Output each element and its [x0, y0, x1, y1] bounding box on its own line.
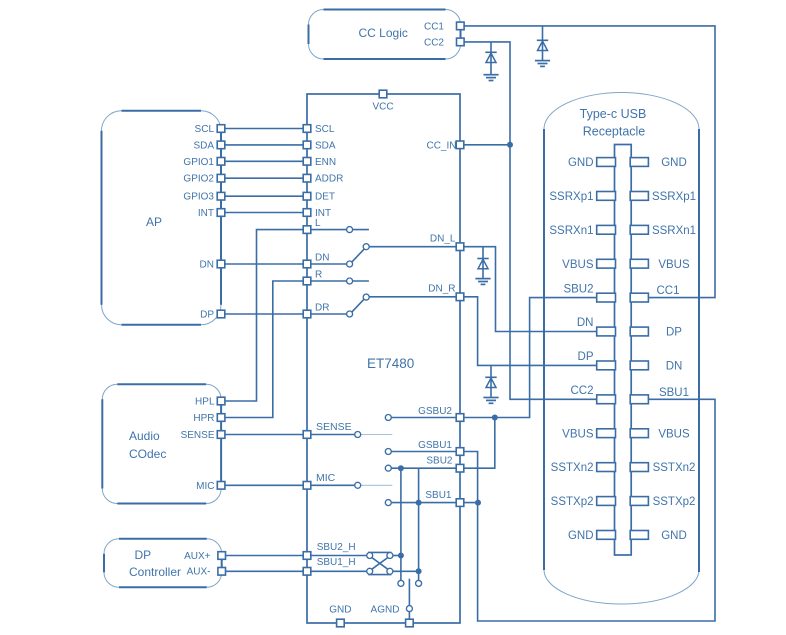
svg-text:SENSE: SENSE [181, 430, 215, 441]
pin ET7480 CC_IN [426, 140, 463, 151]
svg-text:DN: DN [315, 253, 329, 264]
svg-text:DN: DN [666, 361, 683, 373]
pin Audio COdec SENSE [181, 430, 225, 441]
switch contact SBU1 end [416, 580, 422, 586]
receptacle pad right SSTXn2 [630, 463, 648, 472]
svg-text:VCC: VCC [372, 102, 393, 113]
pin AP SCL [195, 124, 225, 135]
receptacle pad right SSRXn1 [630, 225, 648, 234]
switch contact GSBU1 [385, 449, 391, 455]
svg-text:SBU2_H: SBU2_H [317, 542, 356, 553]
wire AP GPIO3 to ET7480 [221, 195, 307, 197]
svg-text:Type-c USB: Type-c USB [580, 107, 647, 121]
svg-text:DN_L: DN_L [430, 234, 456, 245]
wire MIC codec to chip [221, 484, 307, 486]
block DP Controller [104, 539, 222, 588]
receptacle pad left SSTXn2 [597, 463, 616, 472]
svg-text:SBU1_H: SBU1_H [317, 557, 356, 568]
wire CC_IN to CC2 net [460, 144, 510, 146]
ESD diode D1 on CC2 net with ground [483, 42, 498, 81]
pin AP INT [198, 208, 225, 219]
pin ET7480 ADDR [303, 174, 343, 185]
pin ET7480 DN_R [428, 283, 464, 300]
receptacle pad right SSTXp2 [630, 497, 648, 506]
svg-text:GPIO1: GPIO1 [183, 157, 214, 168]
switch arm DN to DN_L [352, 249, 365, 262]
switch arm DR to DN_R [352, 299, 365, 312]
receptacle pad left VBUS [597, 259, 616, 268]
connector Type-c USB Receptacle outline [544, 92, 699, 604]
switch throw L open end [353, 229, 369, 231]
switch contact R [347, 278, 353, 284]
receptacle pad right DP [630, 327, 648, 336]
pin AP SDA [193, 140, 224, 151]
svg-text:R: R [315, 270, 322, 281]
svg-text:GSBU1: GSBU1 [418, 440, 452, 451]
pin ET7480 SBU1 [425, 490, 463, 506]
pin CC Logic CC2 [424, 38, 464, 49]
ESD diode D2 on CC1 net with ground [535, 26, 550, 67]
wire SBU1_H to crossbar [307, 570, 366, 572]
svg-text:SSRXn1: SSRXn1 [549, 225, 593, 237]
receptacle pad left DP [597, 361, 616, 370]
svg-text:GND: GND [568, 157, 594, 169]
svg-text:SSRXp1: SSRXp1 [549, 191, 593, 203]
wire SENSE codec to chip [221, 434, 307, 436]
svg-text:MIC: MIC [316, 472, 336, 484]
wire AP DP to ET7480 [221, 313, 307, 315]
pin ET7480 DET [303, 192, 335, 203]
receptacle pad left VBUS [597, 429, 616, 438]
block Audio COdec [102, 384, 221, 503]
svg-text:CC1: CC1 [656, 285, 679, 297]
ESD diode D4 on DN_R net with ground [483, 365, 498, 403]
junction CC_IN [507, 142, 513, 148]
receptacle pad left SBU2 [597, 293, 616, 302]
svg-text:Receptacle: Receptacle [583, 125, 646, 139]
open line SENSE throw [361, 434, 392, 436]
svg-text:SDA: SDA [193, 140, 214, 151]
wire AUX+ to SBU2_H [222, 555, 307, 557]
svg-text:SBU2: SBU2 [563, 283, 593, 295]
ESD diode D3 on DN_L net with ground [475, 247, 490, 285]
junction GSBU2/SBU2 [492, 415, 498, 421]
junction crossbar SBU2_H [398, 553, 404, 559]
wire crossbar to SBU1 branch [393, 570, 418, 572]
switch contact GSBU2 [385, 415, 391, 421]
svg-text:DN: DN [200, 260, 214, 271]
svg-text:DP: DP [666, 327, 682, 339]
switch pole DN [347, 261, 353, 267]
pin ET7480 AGND [371, 604, 414, 627]
pin ET7480 R [303, 270, 322, 285]
svg-text:CC2: CC2 [424, 38, 444, 49]
wire crossbar to SBU2 branch [393, 555, 401, 557]
wire AP DN to ET7480 [221, 263, 307, 265]
receptacle pad right SSRXp1 [630, 192, 648, 201]
wire L pin to switch contact [307, 229, 347, 231]
wire DN_R to receptacle DP [460, 297, 597, 366]
svg-text:VBUS: VBUS [562, 428, 594, 440]
svg-text:GND: GND [661, 157, 687, 169]
pin DP Controller AUX+ [184, 551, 225, 562]
receptacle pad right GND [630, 531, 648, 540]
receptacle pad left SSTXp2 [597, 497, 616, 506]
pin Audio COdec HPL [195, 397, 225, 408]
chip ET7480 body [307, 94, 460, 623]
pin ET7480 GSBU1 [418, 440, 464, 455]
pin ET7480 GSBU2 [418, 406, 464, 421]
wire MIC pin to switch [307, 484, 355, 486]
wire R pin to switch contact [307, 280, 347, 282]
junction SBU2 branch [398, 465, 404, 471]
wire AP GPIO1 to ET7480 [221, 160, 307, 162]
svg-text:SSRXp1: SSRXp1 [652, 191, 696, 203]
pin ET7480 SBU2 [426, 456, 463, 472]
svg-text:SSTXp2: SSTXp2 [551, 496, 594, 508]
svg-text:VBUS: VBUS [658, 259, 690, 271]
svg-text:MIC: MIC [196, 481, 214, 492]
svg-text:SBU2: SBU2 [426, 456, 453, 467]
svg-text:SSTXn2: SSTXn2 [551, 462, 594, 474]
wire SBU1 loop to receptacle [478, 399, 715, 621]
wire SENSE pin to switch [307, 434, 355, 436]
block CC Logic [309, 10, 461, 60]
svg-text:CC Logic: CC Logic [359, 26, 408, 40]
pin ET7480 ENN [303, 157, 336, 168]
svg-text:GPIO2: GPIO2 [183, 174, 214, 185]
svg-text:SCL: SCL [315, 124, 335, 135]
switch contact DN_L [363, 244, 369, 250]
switch contact SBU2 [385, 465, 391, 471]
pin Audio COdec MIC [196, 481, 225, 492]
pin DP Controller AUX- [187, 567, 226, 578]
svg-text:CC_IN: CC_IN [426, 140, 456, 151]
svg-text:DP: DP [578, 351, 594, 363]
wire SBU1/SBU2 link to crossbar [418, 468, 420, 583]
svg-text:DR: DR [315, 303, 329, 314]
svg-text:CC1: CC1 [424, 22, 444, 33]
pin Audio COdec HPR [193, 413, 225, 424]
wire DN_L to receptacle DN [460, 247, 597, 332]
receptacle pad left SSRXn1 [597, 225, 616, 234]
svg-text:DP: DP [135, 548, 152, 562]
wire SBU1 net [392, 502, 479, 504]
wire AUX- to SBU1_H [222, 570, 307, 572]
svg-text:GND: GND [329, 604, 351, 615]
pin ET7480 SBU1_H [303, 557, 355, 575]
svg-text:INT: INT [198, 208, 214, 219]
pin ET7480 DN_L [430, 234, 464, 251]
pin ET7480 DR [303, 303, 329, 318]
pin AP DP [200, 310, 225, 321]
switch arm AGND pole [408, 579, 410, 606]
svg-text:HPR: HPR [193, 413, 214, 424]
svg-text:ENN: ENN [315, 157, 336, 168]
svg-text:DN_R: DN_R [428, 283, 455, 294]
switch pole DR [347, 311, 353, 317]
pin ET7480 INT [303, 208, 331, 219]
svg-text:AGND: AGND [371, 604, 400, 615]
pin AP DN [200, 260, 225, 271]
svg-text:DET: DET [315, 192, 335, 203]
switch contact MIC [355, 482, 361, 488]
open line MIC throw [361, 484, 392, 486]
wire AP INT to ET7480 [221, 212, 307, 214]
receptacle pad right CC1 [630, 293, 648, 302]
pin ET7480 SBU2_H [303, 542, 355, 560]
receptacle tongue [615, 145, 632, 556]
receptacle pad left DN [597, 327, 616, 336]
receptacle pad right VBUS [630, 429, 648, 438]
block AP [102, 111, 222, 325]
svg-text:DP: DP [200, 310, 214, 321]
svg-text:CC2: CC2 [570, 385, 593, 397]
pin ET7480 SCL [303, 124, 335, 135]
receptacle pad left CC2 [597, 395, 616, 404]
receptacle pad left GND [597, 531, 616, 540]
wire SBU2_H to crossbar [307, 555, 366, 557]
wire AP GPIO2 to ET7480 [221, 177, 307, 179]
switch throw R open end [353, 280, 369, 282]
wire GSBU2 net [392, 298, 597, 418]
svg-text:SSTXn2: SSTXn2 [653, 462, 696, 474]
svg-text:ET7480: ET7480 [367, 356, 414, 371]
wire AP SDA to ET7480 [221, 144, 307, 146]
svg-text:AP: AP [146, 215, 162, 229]
wire CC1 to receptacle CC1 [460, 26, 715, 298]
svg-text:COdec: COdec [129, 447, 166, 461]
svg-text:Audio: Audio [129, 429, 160, 443]
junction crossbar SBU1_H [416, 568, 422, 574]
pin ET7480 DN [303, 253, 329, 268]
pin ET7480 SENSE [303, 421, 351, 438]
wire AP SCL to ET7480 [221, 128, 307, 130]
svg-text:SSTXp2: SSTXp2 [653, 496, 696, 508]
receptacle pad left SSRXp1 [597, 192, 616, 201]
wire CC2 to CC_IN and receptacle CC2 [460, 42, 596, 399]
pin ET7480 SDA [303, 140, 336, 151]
svg-text:SBU1: SBU1 [425, 490, 452, 501]
svg-text:SDA: SDA [315, 140, 336, 151]
svg-text:Controller: Controller [129, 565, 181, 579]
receptacle pad right GND [630, 158, 648, 167]
pin ET7480 L [303, 218, 321, 233]
svg-text:SCL: SCL [195, 124, 215, 135]
svg-text:GPIO3: GPIO3 [183, 192, 214, 203]
svg-text:VBUS: VBUS [658, 428, 690, 440]
pin CC Logic CC1 [424, 22, 464, 33]
svg-text:AUX-: AUX- [187, 567, 211, 578]
svg-text:SBU1: SBU1 [659, 387, 689, 399]
pin AP GPIO3 [183, 192, 224, 203]
receptacle pad left GND [597, 158, 616, 167]
wire DN pin to switch pole [307, 263, 347, 265]
switch pole AGND [406, 606, 412, 612]
svg-text:L: L [315, 218, 321, 229]
wire DR pin to switch pole [307, 313, 347, 315]
pin ET7480 MIC [303, 472, 335, 489]
wire GSBU1 net [392, 452, 478, 503]
wire HPL to ET7480 L [221, 230, 307, 401]
switch contact SBU1 [385, 500, 391, 506]
junction SBU1/GSBU1 [475, 500, 481, 506]
receptacle pad right SBU1 [630, 395, 648, 404]
crosspoint switch SBU_H [367, 552, 393, 574]
receptacle pad right DN [630, 361, 648, 370]
pin ET7480 VCC [372, 90, 393, 112]
svg-text:SSRXn1: SSRXn1 [652, 225, 696, 237]
switch contact SENSE [355, 432, 361, 438]
svg-text:GND: GND [568, 530, 594, 542]
wire HPR to ET7480 R [221, 281, 307, 418]
svg-text:GSBU2: GSBU2 [418, 406, 452, 417]
switch contact L [347, 227, 353, 233]
pin ET7480 GND [329, 604, 351, 627]
svg-text:VBUS: VBUS [562, 259, 594, 271]
svg-text:SENSE: SENSE [316, 421, 352, 433]
svg-text:DN: DN [577, 317, 594, 329]
wire AGND switch to pin [408, 612, 410, 623]
wire SBU2 net [392, 418, 495, 469]
wire switch to DN_L pin [369, 246, 460, 248]
svg-text:AUX+: AUX+ [184, 551, 211, 562]
switch contact DN_R [363, 294, 369, 300]
pin AP GPIO1 [183, 157, 224, 168]
svg-text:ADDR: ADDR [315, 174, 343, 185]
receptacle pad right VBUS [630, 259, 648, 268]
switch contact SBU2 end [398, 580, 404, 586]
pin AP GPIO2 [183, 174, 224, 185]
wire SBU2 to crossbar branch [400, 468, 402, 583]
svg-text:GND: GND [661, 530, 687, 542]
junction SBU1 branch [416, 500, 422, 506]
wire switch to DN_R pin [369, 296, 460, 298]
svg-text:HPL: HPL [195, 397, 215, 408]
